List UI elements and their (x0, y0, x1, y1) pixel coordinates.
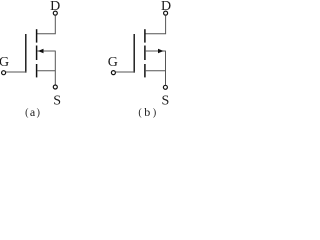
terminal circle D (Q1) (53, 11, 57, 15)
terminal circle S (Q2) (163, 85, 167, 89)
svg-text:S: S (162, 94, 170, 109)
wire body lead (Q1): from body bar right to rail (37, 50, 55, 52)
svg-text:(a): (a) (25, 105, 40, 119)
terminal circle S (Q1) (53, 85, 57, 89)
transistor Q2 (b) P-channel enhancement MOSFET (108, 0, 171, 119)
terminal circle D (Q2) (164, 11, 168, 15)
svg-text:D: D (50, 0, 60, 14)
wire drain lead (Q1): from D terminal down and left to top channel bar (37, 16, 55, 34)
arrow body (Q2) pointing right away from channel: P-channel (158, 49, 164, 53)
wire source lead (Q2): from source bar right to rail junction (145, 70, 165, 72)
channel bar source segment (Q2) (144, 64, 146, 77)
svg-text:S: S (53, 94, 61, 109)
transistor Q1 (a) N-channel enhancement MOSFET (0, 0, 61, 119)
channel bar body segment (Q2) (144, 46, 146, 61)
channel bar drain segment (Q1) (36, 29, 38, 42)
gate electrode line (Q2) (133, 34, 135, 73)
channel bar source segment (Q1) (36, 64, 38, 77)
wire gate lead (Q2): from G terminal right to gate line (116, 71, 135, 73)
svg-text:D: D (161, 0, 171, 14)
channel bar body segment (Q1) (36, 46, 38, 61)
wire gate lead (Q1): from G terminal right to gate line (6, 71, 27, 73)
svg-text:(b): (b) (138, 105, 156, 119)
wire rail (Q2): from body corner down to S terminal (165, 51, 167, 85)
svg-text:G: G (0, 55, 9, 70)
gate electrode line (Q1) (25, 34, 27, 73)
wire source lead (Q1): from source bar right to rail junction (37, 70, 55, 72)
wire rail (Q1): from body corner down to S terminal (54, 51, 56, 85)
terminal circle G (Q2) (111, 71, 115, 75)
svg-text:G: G (108, 55, 118, 70)
wire drain lead (Q2): from D terminal down and left to top channel bar (145, 16, 166, 34)
wire body lead (Q2): from body bar right to rail (145, 50, 165, 52)
channel bar drain segment (Q2) (144, 29, 146, 42)
terminal circle G (Q1) (2, 71, 6, 75)
arrow body (Q1) pointing left toward channel: N-channel (38, 49, 44, 53)
